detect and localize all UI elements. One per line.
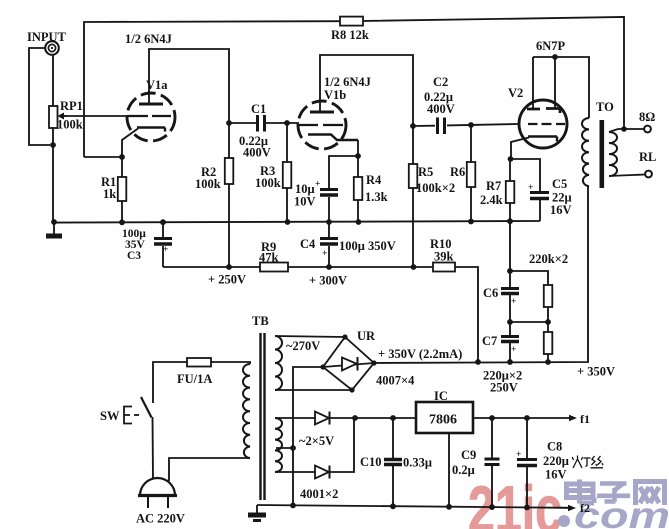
wire f2 arrow [558, 507, 570, 509]
ground symbol (bottom) [256, 505, 258, 513]
resistor R6 [470, 125, 472, 222]
svg-text:C4: C4 [300, 237, 316, 251]
arrow f1 [569, 415, 577, 421]
wire V2 cathode to node [511, 138, 529, 160]
resistor R1 [121, 157, 123, 222]
node V1a cathode [119, 154, 125, 160]
svg-text:R5: R5 [418, 165, 433, 179]
svg-text:100k: 100k [255, 176, 281, 190]
svg-text:f1: f1 [580, 412, 590, 426]
output transformer TO primary [582, 118, 589, 186]
svg-text:100k×2: 100k×2 [416, 181, 455, 195]
svg-text:IC: IC [434, 389, 448, 403]
bridge rectifier UR [323, 337, 374, 390]
resistor R10 [433, 263, 455, 272]
node return to PSU ground [290, 503, 296, 509]
node C4 bottom [326, 264, 332, 270]
watermark .com [558, 495, 669, 529]
svg-text:RP1: RP1 [60, 99, 83, 113]
wire D1 to IC input [330, 417, 417, 419]
B+ rail (+250/+300V) [163, 267, 478, 362]
feedback bus wire (top) [84, 17, 624, 157]
bridge corner nodes [342, 334, 347, 339]
bridge diode [342, 358, 357, 371]
triode V1b [298, 101, 346, 149]
wire RP1 wiper to V1a grid [64, 115, 127, 117]
svg-text:+ 250V: + 250V [208, 273, 246, 287]
resistor R7 [509, 159, 511, 222]
svg-text:C6: C6 [483, 286, 498, 300]
label dengsi (filament) [572, 456, 603, 469]
diode D1 [315, 412, 329, 425]
node R5 bottom [411, 264, 417, 270]
V1a grid (dashed) [127, 115, 171, 117]
svg-text:+ 350V: + 350V [577, 365, 615, 379]
wire 7806 output to f1 [473, 417, 571, 419]
fuse FU/1A [187, 358, 211, 367]
wire jack shell to RP1 bottom [29, 48, 50, 145]
V2 plate/screen bars [527, 109, 560, 114]
resistor R3 [286, 123, 288, 222]
svg-text:1/2 6N4J: 1/2 6N4J [125, 32, 172, 46]
wire filament top to D1 [275, 417, 315, 419]
capacitor C5 [530, 191, 549, 194]
svg-text:C9: C9 [461, 448, 476, 462]
svg-text:TO: TO [596, 100, 614, 114]
C6/C7 divider chain wire [509, 221, 511, 362]
node C1 / R3 [284, 120, 290, 126]
capacitor C6 [501, 287, 519, 290]
svg-text:R8 12k: R8 12k [331, 28, 369, 42]
node filament center tap [276, 447, 293, 449]
watermark 网 [636, 482, 665, 506]
capacitor C4 [328, 222, 330, 267]
capacitor C8 [526, 418, 528, 507]
node V2 screen/plate [552, 54, 558, 60]
wire C5 to ground rail [539, 200, 541, 221]
capacitor C9 [491, 418, 493, 507]
svg-text:+: + [315, 180, 320, 190]
svg-text:AC 220V: AC 220V [136, 512, 185, 526]
node B+ feed [475, 359, 481, 365]
ground symbol (left) [53, 222, 55, 234]
svg-text:0.2μ: 0.2μ [452, 463, 475, 477]
svg-text:+ 350V (2.2mA): + 350V (2.2mA) [378, 347, 462, 361]
svg-text:400V: 400V [243, 146, 271, 160]
V1b grid (dashed) [299, 124, 343, 126]
wire secondary top to 8 ohm terminal [609, 129, 644, 132]
svg-text:8Ω: 8Ω [639, 110, 655, 124]
wire V2 top node to TO primary [533, 57, 589, 118]
node C3 top [160, 219, 166, 225]
V2 cathode [528, 137, 557, 142]
resistor R4 [357, 156, 359, 222]
regulator IC 7806 [416, 402, 473, 433]
node R7 bottom [507, 218, 513, 224]
svg-text:7806: 7806 [429, 413, 457, 428]
V1a plate [139, 103, 163, 106]
wire C1 to V1b grid [266, 122, 299, 124]
svg-text:4001×2: 4001×2 [300, 487, 338, 501]
svg-text:250V: 250V [490, 381, 518, 395]
capacitor C1 [256, 115, 259, 132]
svg-text:+: + [511, 297, 516, 307]
TB filament secondary ~2x5V [275, 418, 282, 472]
ground rail [54, 221, 540, 223]
svg-text:1k: 1k [103, 187, 116, 201]
svg-text:10V: 10V [294, 195, 316, 209]
INPUT jack [45, 41, 59, 55]
TO secondary [609, 132, 617, 176]
wire cathode node to C5 [511, 159, 540, 191]
watermark 电 [567, 480, 595, 504]
svg-text:1.3k: 1.3k [365, 190, 388, 204]
TB HV secondary ~270V [275, 336, 282, 390]
node R4 bottom [356, 219, 362, 225]
V1b plate [310, 111, 334, 114]
svg-text:UR: UR [357, 329, 376, 343]
svg-text:C2: C2 [433, 75, 448, 89]
svg-text:220k×2: 220k×2 [529, 252, 568, 266]
terminal RL [645, 171, 652, 178]
wire bridge negative return [293, 367, 323, 506]
node RP1 bottom / input shell [50, 142, 56, 148]
node V2 cathode [508, 156, 514, 162]
wire filament bottom to D2 [275, 471, 315, 473]
wire plug right prong to TB primary bottom [169, 458, 250, 481]
node chain bottom / 220k bottom [507, 359, 513, 365]
wire 7806 ground pin [448, 433, 450, 507]
capacitor 10u/10V [320, 188, 338, 191]
potentiometer RP1 [49, 106, 58, 128]
node ground rail left [51, 219, 57, 225]
node R3 bottom [285, 219, 291, 225]
resistor 220k (lower) [544, 332, 553, 354]
node V1a plate / C1 [226, 120, 232, 126]
resistor 220k (upper) [544, 285, 553, 307]
svg-text:0.33μ: 0.33μ [403, 456, 432, 470]
wire switch to plug [152, 417, 155, 479]
node 8ohm / feedback tap [621, 126, 627, 132]
svg-text:+: + [516, 450, 521, 460]
wire plate node to C2 [413, 125, 435, 127]
svg-text:C10: C10 [360, 455, 382, 469]
switch SW [124, 407, 132, 424]
svg-text:+: + [528, 183, 533, 193]
svg-text:+: + [322, 249, 327, 259]
svg-text:220μ: 220μ [543, 454, 569, 468]
node R1 bottom [119, 219, 125, 225]
svg-text:+: + [511, 345, 516, 355]
svg-text:~270V: ~270V [286, 339, 320, 353]
wire C2 to V2 grid [447, 124, 519, 125]
+350V rail [374, 186, 588, 363]
watermark 子 [597, 484, 630, 502]
svg-text:~2×5V: ~2×5V [299, 434, 334, 448]
wire V1b cathode to node [357, 140, 359, 156]
svg-text:R6: R6 [450, 165, 465, 179]
node chain top [507, 268, 513, 274]
resistor R5 [412, 126, 414, 267]
svg-text:C3: C3 [127, 250, 141, 262]
svg-text:16V: 16V [545, 468, 567, 482]
svg-text:2.4k: 2.4k [480, 193, 503, 207]
svg-text:100k: 100k [195, 177, 221, 191]
svg-text:16V: 16V [550, 203, 572, 217]
svg-text:INPUT: INPUT [27, 30, 67, 44]
node chain mid [507, 319, 513, 325]
wire V1a cathode node to feedback bus [84, 156, 122, 158]
svg-text:FU/1A: FU/1A [177, 372, 212, 386]
svg-text:100μ 350V: 100μ 350V [339, 239, 396, 253]
wire cathode node to C10u [329, 156, 358, 189]
svg-text:V1b: V1b [324, 88, 346, 102]
TB core [261, 333, 265, 500]
svg-text:100k: 100k [57, 118, 83, 132]
svg-text:39k: 39k [434, 250, 454, 264]
resistor R9 [260, 263, 288, 272]
wire HV top to bridge [275, 336, 345, 337]
capacitor C2 [436, 118, 439, 135]
V1b cathode [308, 135, 358, 141]
V2 grid (dashed) [528, 123, 565, 125]
wire jack pin to RP1 top [52, 55, 54, 106]
svg-text:SW: SW [100, 409, 120, 423]
wire mains live: switch to fuse to TB primary [153, 362, 250, 403]
V2 plate/screen leads to top node [533, 57, 555, 109]
wire D2 to output node [330, 418, 355, 472]
svg-text:400V: 400V [427, 102, 455, 116]
svg-text:4007×4: 4007×4 [376, 374, 415, 388]
node R2 bottom [226, 264, 232, 270]
node V1b cathode [355, 153, 361, 159]
capacitor C10 [392, 418, 394, 507]
wire plate node to C1 [229, 122, 256, 124]
svg-text:1/2 6N4J: 1/2 6N4J [324, 75, 371, 89]
capacitor C7 [501, 335, 519, 338]
svg-text:+: + [163, 245, 168, 255]
triode V1a [127, 93, 175, 141]
svg-text:V2: V2 [508, 86, 523, 100]
wire 220k balancing branch [510, 271, 548, 362]
TO core [599, 120, 604, 188]
node 10u bottom / C4 top [326, 219, 332, 225]
wire 10u to ground [328, 197, 330, 222]
svg-text:6N7P: 6N7P [536, 39, 566, 53]
node C2 / R6 [468, 122, 474, 128]
svg-text:C7: C7 [482, 334, 497, 348]
wire V1b plate to C2 node [320, 55, 413, 126]
svg-text:C5: C5 [552, 177, 567, 191]
node R6 bottom [468, 219, 474, 225]
PSU ground rail [257, 505, 570, 508]
V1a cathode [137, 128, 165, 132]
node 220k mid [545, 319, 551, 325]
wire V1a cathode to node [122, 129, 138, 158]
wire HV bottom to bridge [275, 389, 352, 391]
svg-text:C8: C8 [547, 440, 562, 454]
wire V1a plate to C1 node [149, 49, 229, 123]
diode D2 [315, 466, 329, 479]
capacitor C3 [162, 222, 164, 267]
svg-text:R7: R7 [486, 179, 501, 193]
svg-text:47k: 47k [259, 251, 279, 265]
power transformer TB primary [243, 364, 250, 458]
wire secondary bottom to RL terminal [609, 175, 645, 177]
svg-text:C1: C1 [251, 102, 266, 116]
svg-text:TB: TB [252, 314, 269, 328]
plug AC220V [140, 478, 175, 496]
wire RP1 bottom to ground [52, 128, 54, 222]
resistor R8 [340, 17, 363, 26]
node V1b plate / C2 / R5 [410, 123, 416, 129]
output tube V2 [519, 100, 567, 148]
resistor R2 [228, 123, 230, 267]
terminal 8 ohm [644, 126, 651, 133]
svg-text:f2: f2 [580, 501, 590, 515]
node D1/D2 output [352, 415, 358, 421]
svg-text:R4: R4 [366, 173, 382, 187]
svg-text:RL: RL [639, 150, 656, 164]
svg-text:+ 300V: + 300V [309, 274, 347, 288]
